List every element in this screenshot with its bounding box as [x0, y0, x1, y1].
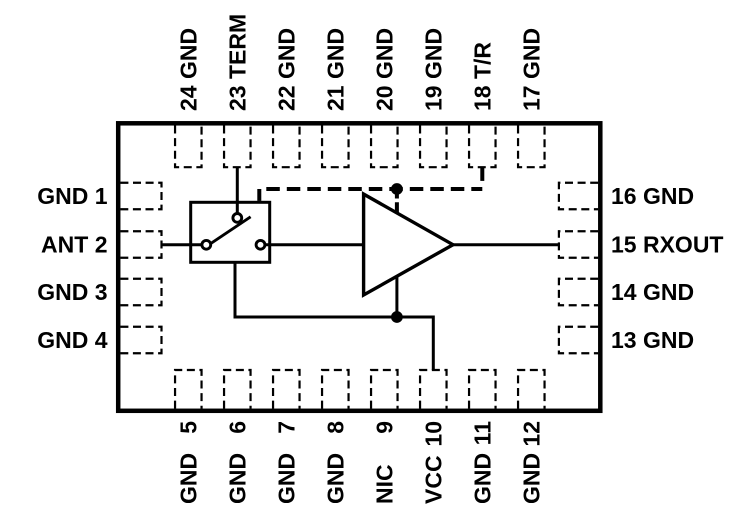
- svg-text:23 TERM: 23 TERM: [224, 14, 250, 111]
- pin 2 pad: [120, 231, 161, 258]
- switch contact right: [256, 240, 265, 249]
- svg-text:15 RXOUT: 15 RXOUT: [611, 232, 723, 258]
- svg-text:GND: GND: [273, 453, 299, 504]
- pin 18 pad: [469, 126, 496, 168]
- svg-text:5: 5: [175, 421, 201, 434]
- pin 11 pad: [469, 370, 496, 409]
- label pin 12: [518, 421, 544, 504]
- pin 8 pad: [322, 370, 349, 409]
- wire amplifier supply to junction: [395, 276, 398, 317]
- pin 4 pad: [120, 327, 161, 354]
- label pin 10: [420, 421, 446, 504]
- svg-text:6: 6: [224, 421, 250, 434]
- pin 23 pad: [224, 126, 251, 168]
- dashed control riser to pin18: [480, 167, 484, 186]
- svg-text:14 GND: 14 GND: [611, 279, 694, 305]
- svg-text:8: 8: [322, 421, 348, 434]
- switch contact left: [202, 240, 211, 249]
- label pin 6: [224, 421, 250, 504]
- pin 22 pad: [273, 126, 300, 168]
- pin 15 pad: [559, 231, 598, 258]
- pin 19 pad: [420, 126, 447, 168]
- svg-text:GND: GND: [469, 453, 495, 504]
- dashed control drop to amplifier: [395, 189, 399, 213]
- svg-text:24 GND: 24 GND: [175, 28, 201, 111]
- chip outline U1: [118, 123, 600, 411]
- junction dot control line: [391, 183, 403, 195]
- svg-text:ANT 2: ANT 2: [41, 232, 107, 258]
- svg-text:9: 9: [371, 421, 397, 434]
- label pin 7: [273, 421, 299, 504]
- wire amplifier output to pin15 RXOUT: [452, 243, 559, 246]
- dashed control line switch to pin18 T/R: [259, 187, 482, 191]
- svg-text:GND 1: GND 1: [37, 183, 108, 209]
- dashed control tick at switch: [257, 189, 261, 201]
- svg-text:17 GND: 17 GND: [518, 28, 544, 111]
- svg-text:7: 7: [273, 421, 299, 434]
- pin 24 pad: [175, 126, 202, 168]
- wire TERM pin23 to switch: [236, 167, 239, 218]
- svg-text:GND: GND: [518, 453, 544, 504]
- pin 3 pad: [120, 279, 161, 306]
- pin 21 pad: [322, 126, 349, 168]
- wire switch bypass to VCC pin10: [235, 262, 433, 370]
- pin 10 pad: [420, 370, 447, 409]
- svg-text:21 GND: 21 GND: [322, 28, 348, 111]
- svg-text:GND: GND: [322, 453, 348, 504]
- pin 5 pad: [175, 370, 202, 409]
- svg-text:12: 12: [518, 421, 544, 447]
- label pin 8: [322, 421, 348, 504]
- svg-text:11: 11: [469, 421, 495, 446]
- pin 6 pad: [224, 370, 251, 409]
- pin 12 pad: [518, 370, 545, 409]
- label pin 5: [175, 421, 201, 504]
- svg-text:20 GND: 20 GND: [371, 28, 397, 111]
- svg-text:GND: GND: [175, 453, 201, 504]
- svg-text:13 GND: 13 GND: [611, 327, 694, 353]
- pin 20 pad: [371, 126, 398, 168]
- junction dot supply: [391, 311, 403, 323]
- pin 17 pad: [518, 126, 545, 168]
- pin 13 pad: [559, 327, 598, 354]
- wire switch to amplifier input: [261, 243, 366, 246]
- svg-text:16 GND: 16 GND: [611, 183, 694, 209]
- switch arm: [210, 217, 250, 244]
- svg-text:22 GND: 22 GND: [273, 28, 299, 111]
- switch S1 box: [191, 202, 270, 262]
- svg-text:GND: GND: [224, 453, 250, 504]
- svg-text:10: 10: [420, 421, 446, 447]
- label pin 11: [469, 421, 495, 504]
- svg-text:GND 3: GND 3: [37, 279, 107, 305]
- pin 1 pad: [120, 183, 161, 210]
- pin 9 pad: [371, 370, 398, 409]
- svg-text:NIC: NIC: [371, 464, 397, 504]
- pin 7 pad: [273, 370, 300, 409]
- label pin 9: [371, 421, 397, 504]
- svg-text:18 T/R: 18 T/R: [469, 42, 495, 111]
- svg-text:GND 4: GND 4: [37, 327, 108, 353]
- svg-text:19 GND: 19 GND: [420, 28, 446, 111]
- wire ANT pin2 to switch: [161, 243, 206, 246]
- pin 14 pad: [559, 279, 598, 306]
- amplifier A1: [364, 194, 453, 295]
- switch contact top: [233, 214, 242, 223]
- svg-text:VCC: VCC: [420, 455, 446, 504]
- pin 16 pad: [559, 183, 598, 210]
